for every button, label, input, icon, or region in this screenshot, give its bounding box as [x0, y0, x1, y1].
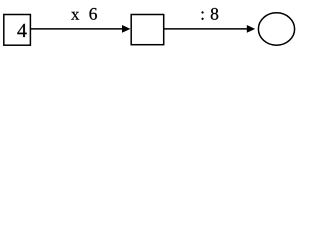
box B2 (middle box, empty)	[131, 15, 164, 45]
wire arrow A1 head	[122, 25, 130, 33]
box B1 (input box)	[4, 15, 31, 46]
wire arrow A2 head	[247, 25, 255, 33]
label : (divide)	[202, 11, 204, 19]
node result ellipse (empty)	[258, 13, 294, 45]
label 8	[211, 8, 218, 20]
wire arrow A2 shaft	[164, 28, 248, 30]
label x (times)	[71, 12, 79, 20]
label 6	[89, 8, 96, 20]
value 4	[17, 24, 26, 37]
wire arrow A1 shaft	[31, 28, 123, 30]
